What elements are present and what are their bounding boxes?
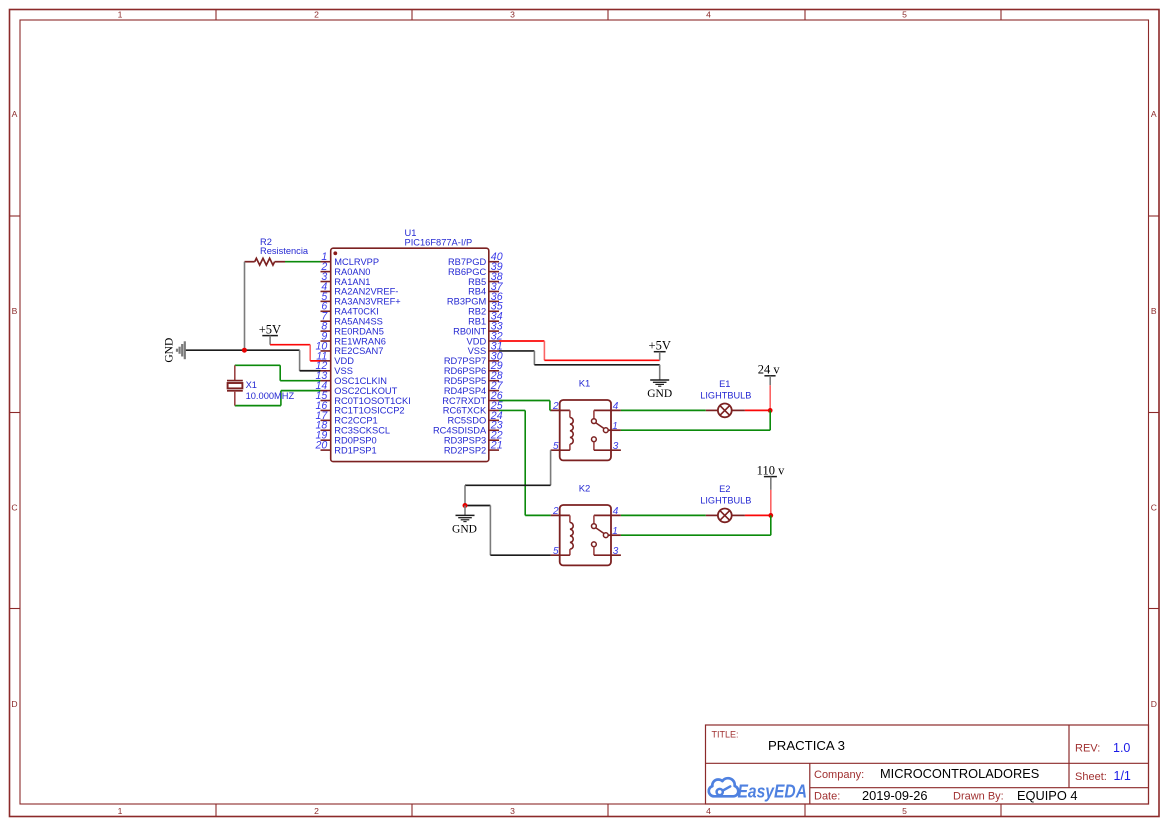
U1 pin 33 RB0INT: [453, 321, 503, 337]
U1 pin 10 RE2CSAN7: [316, 340, 384, 356]
svg-text:RB1: RB1: [468, 316, 486, 326]
svg-text:RB4: RB4: [468, 287, 486, 297]
svg-text:Company:: Company:: [814, 769, 864, 781]
svg-text:3: 3: [613, 441, 619, 452]
U1 pin 29 RD6PSP6: [444, 360, 503, 376]
svg-text:TITLE:: TITLE:: [712, 730, 739, 740]
svg-text:RC3SCKSCL: RC3SCKSCL: [334, 426, 390, 436]
lamp E1 LIGHTBULB: [700, 379, 751, 417]
U1 pin 16 RC1T1OSICCP2: [316, 400, 405, 416]
svg-text:RB6PGC: RB6PGC: [448, 267, 487, 277]
svg-text:Resistencia: Resistencia: [260, 246, 309, 256]
svg-text:1.0: 1.0: [1113, 741, 1130, 755]
wire K1 pin4 to E1 (green): [621, 409, 706, 411]
ground symbol left GND: [164, 338, 185, 363]
wire OSC2 pin14 to X1 (green): [235, 391, 321, 406]
U1 pin 18 RC3SCKSCL: [316, 420, 391, 436]
svg-text:EasyEDA: EasyEDA: [738, 780, 808, 801]
relay K1 coil: [570, 410, 573, 450]
svg-text:C: C: [11, 503, 17, 513]
svg-text:RD7PSP7: RD7PSP7: [444, 356, 486, 366]
svg-text:5: 5: [553, 441, 559, 452]
svg-text:D: D: [11, 699, 17, 709]
relay K2 pin 1 and contact: [603, 526, 621, 538]
svg-text:RC0T1OSOT1CKI: RC0T1OSOT1CKI: [334, 396, 410, 406]
U1 pin 34 RB1: [468, 311, 503, 327]
svg-text:3: 3: [510, 806, 515, 816]
svg-text:2: 2: [552, 401, 559, 412]
U1 pin 38 RB5: [468, 271, 503, 287]
relay K2 body: [560, 483, 611, 565]
svg-text:RD4PSP4: RD4PSP4: [444, 386, 486, 396]
svg-text:20: 20: [315, 440, 328, 452]
svg-text:4: 4: [613, 506, 619, 517]
relay K1 body: [560, 378, 611, 460]
svg-text:RA4T0CKI: RA4T0CKI: [334, 307, 378, 317]
U1 pin 13 OSC1CLKIN: [316, 370, 388, 386]
svg-text:MCLRVPP: MCLRVPP: [334, 257, 379, 267]
svg-text:RC6TXCK: RC6TXCK: [443, 406, 487, 416]
svg-text:X1: X1: [246, 380, 257, 390]
svg-text:EQUIPO 4: EQUIPO 4: [1017, 788, 1077, 803]
U1 pin 3 RA1AN1: [321, 271, 371, 287]
wire R2 left down to GND net (gray vertical): [244, 262, 246, 351]
junction node GND/R2: [242, 348, 247, 353]
lamp E2 LIGHTBULB: [700, 484, 751, 522]
wire VDD pin32 to +5V (red): [499, 341, 660, 360]
U1 pin 7 RA5AN4SS: [321, 311, 383, 327]
svg-text:RE2CSAN7: RE2CSAN7: [334, 346, 383, 356]
net flag 110 v: [757, 463, 785, 515]
U1 pin 4 RA2AN2VREF-: [321, 281, 399, 297]
ground symbol mid GND: [452, 506, 477, 536]
svg-text:3: 3: [613, 546, 619, 557]
EasyEDA logo: [709, 778, 807, 801]
junction node 24v/E1: [768, 408, 773, 413]
U1 pin 5 RA3AN3VREF+: [321, 291, 401, 307]
svg-text:RB7PGD: RB7PGD: [448, 257, 487, 267]
svg-text:5: 5: [902, 10, 907, 20]
svg-text:4: 4: [706, 806, 711, 816]
wire E2 to 110v junction (red): [745, 514, 771, 516]
svg-text:RB5: RB5: [468, 277, 486, 287]
U1 pin 26 RC7RXDT: [442, 390, 502, 406]
svg-text:RE0RDAN5: RE0RDAN5: [334, 326, 384, 336]
svg-text:RD5PSP5: RD5PSP5: [444, 376, 486, 386]
svg-text:VSS: VSS: [468, 346, 487, 356]
relay K1 pin 5: [551, 441, 570, 452]
svg-text:B: B: [12, 306, 18, 316]
svg-text:RD0PSP0: RD0PSP0: [334, 435, 376, 445]
svg-text:Date:: Date:: [814, 791, 840, 803]
relay K2 switch arm: [596, 528, 604, 534]
svg-text:A: A: [1151, 109, 1157, 119]
svg-text:LIGHTBULB: LIGHTBULB: [700, 391, 751, 401]
relay K1 pin 4 and contact: [592, 401, 621, 423]
relay K1 switch arm: [596, 423, 604, 429]
wire K1 pin5 to GND (black): [465, 450, 551, 505]
svg-text:1: 1: [612, 421, 618, 432]
svg-text:RA3AN3VREF+: RA3AN3VREF+: [334, 297, 400, 307]
svg-text:2: 2: [314, 10, 319, 20]
U1 pin 23 RC4SDISDA: [433, 420, 503, 436]
svg-text:RA5AN4SS: RA5AN4SS: [334, 316, 383, 326]
relay K2 pin 3 and contact: [592, 542, 621, 557]
relay K2 pin 4 and contact: [592, 506, 621, 528]
wire VSS pin31 to GND (black): [499, 351, 660, 380]
wire RC6 pin25 to K2 pin2 (green): [499, 410, 551, 515]
svg-text:+5V: +5V: [259, 323, 281, 337]
U1 pin 24 RC5SDO: [447, 410, 502, 426]
U1 pin 11 VDD: [316, 350, 354, 366]
U1 pin 9 RE1WRAN6: [321, 330, 386, 346]
wire R2 to U1 pin1 (green): [285, 261, 321, 263]
svg-text:RD2PSP2: RD2PSP2: [444, 445, 486, 455]
svg-text:3: 3: [510, 10, 515, 20]
svg-text:10.000MHZ: 10.000MHZ: [246, 391, 295, 401]
power symbol +5V (right): [649, 338, 671, 360]
title block: [706, 725, 1149, 804]
svg-text:RE1WRAN6: RE1WRAN6: [334, 336, 386, 346]
U1 pin 19 RD0PSP0: [316, 430, 377, 446]
U1 pin 8 RE0RDAN5: [321, 321, 384, 337]
svg-text:110 v: 110 v: [757, 463, 785, 477]
junction node 110v/E2: [768, 513, 773, 518]
svg-text:RB2: RB2: [468, 307, 486, 317]
svg-text:RB3PGM: RB3PGM: [447, 297, 486, 307]
U1 pin 27 RD4PSP4: [444, 380, 504, 396]
U1 pin 39 RB6PGC: [448, 261, 503, 277]
svg-text:PIC16F877A-I/P: PIC16F877A-I/P: [405, 238, 473, 248]
U1 pin 37 RB4: [468, 281, 504, 297]
svg-text:1: 1: [118, 10, 123, 20]
svg-text:OSC2CLKOUT: OSC2CLKOUT: [334, 386, 397, 396]
svg-text:1: 1: [612, 526, 618, 537]
svg-text:A: A: [12, 109, 18, 119]
svg-text:GND: GND: [452, 523, 477, 535]
U1 pin 12 VSS: [316, 360, 353, 376]
IC U1 PIC16F877A-I/P microcontroller body: [331, 228, 489, 461]
power symbol +5V (left): [259, 323, 281, 345]
U1 pin 22 RD3PSP3: [444, 430, 503, 446]
wire K1 pin1 to 24v junction (green): [621, 410, 770, 430]
U1 pin 35 RB2: [468, 301, 503, 317]
U1 pin 25 RC6TXCK: [443, 400, 503, 416]
crystal X1 10.000MHZ: [227, 365, 294, 405]
svg-text:+5V: +5V: [649, 338, 671, 352]
svg-text:RC5SDO: RC5SDO: [447, 416, 486, 426]
svg-text:K2: K2: [579, 483, 591, 494]
svg-text:4: 4: [706, 10, 711, 20]
svg-text:RC2CCP1: RC2CCP1: [334, 416, 377, 426]
svg-text:VSS: VSS: [334, 366, 353, 376]
svg-text:VDD: VDD: [334, 356, 354, 366]
ground symbol right GND: [647, 380, 672, 400]
svg-text:E1: E1: [719, 379, 730, 389]
relay K1 pin 3 and contact: [592, 437, 621, 452]
svg-text:5: 5: [902, 806, 907, 816]
svg-text:RA0AN0: RA0AN0: [334, 267, 370, 277]
svg-text:RC1T1OSICCP2: RC1T1OSICCP2: [334, 406, 404, 416]
wire GND junction to K2 pin5 (black): [465, 506, 551, 556]
svg-text:RC4SDISDA: RC4SDISDA: [433, 426, 487, 436]
U1 pin 17 RC2CCP1: [316, 410, 378, 426]
svg-text:LIGHTBULB: LIGHTBULB: [700, 496, 751, 506]
wire GND horizontal to VSS pin12: [186, 349, 300, 351]
net flag 24 v: [758, 363, 781, 411]
U1 pin 28 RD5PSP5: [444, 370, 503, 386]
U1 pin 21 RD2PSP2: [444, 440, 503, 456]
svg-text:1: 1: [118, 806, 123, 816]
U1 pin 14 OSC2CLKOUT: [316, 380, 398, 396]
svg-text:RC7RXDT: RC7RXDT: [442, 396, 486, 406]
svg-text:RD1PSP1: RD1PSP1: [334, 445, 376, 455]
wire OSC1 pin13 to X1 (green): [235, 365, 321, 380]
relay K2 pin 2: [551, 506, 570, 517]
svg-text:OSC1CLKIN: OSC1CLKIN: [334, 376, 387, 386]
relay K1 pin 2: [551, 401, 570, 412]
junction node mid GND: [463, 503, 468, 508]
svg-text:RB0INT: RB0INT: [453, 326, 486, 336]
svg-text:2: 2: [314, 806, 319, 816]
wire K2 pin4 to E2 (green): [621, 514, 706, 516]
U1 pin 1 MCLRVPP: [321, 251, 380, 267]
U1 pin 30 RD7PSP7: [444, 350, 503, 366]
svg-text:E2: E2: [719, 484, 730, 494]
svg-text:C: C: [1151, 503, 1157, 513]
svg-text:VDD: VDD: [467, 336, 487, 346]
svg-text:GND: GND: [164, 338, 176, 363]
relay K2 pin 5: [551, 546, 570, 557]
svg-text:RD3PSP3: RD3PSP3: [444, 435, 486, 445]
U1 pin 6 RA4T0CKI: [321, 301, 379, 317]
svg-text:24 v: 24 v: [758, 363, 781, 377]
relay K1 pin 1 and contact: [603, 421, 621, 433]
resistor R2 Resistencia: [245, 237, 309, 265]
svg-text:21: 21: [490, 440, 503, 452]
svg-text:PRACTICA 3: PRACTICA 3: [768, 738, 845, 753]
svg-text:Drawn By:: Drawn By:: [953, 791, 1004, 803]
wire RC7 pin26 to K1 pin2 (green): [499, 401, 551, 411]
wire K2 pin1 to 110v junction (green): [621, 515, 771, 535]
svg-text:1/1: 1/1: [1114, 769, 1131, 783]
svg-text:RD6PSP6: RD6PSP6: [444, 366, 486, 376]
svg-text:K1: K1: [579, 378, 591, 389]
svg-text:D: D: [1151, 699, 1157, 709]
U1 pin 31 VSS: [468, 340, 503, 356]
svg-text:RA1AN1: RA1AN1: [334, 277, 370, 287]
U1 pin 2 RA0AN0: [320, 261, 370, 277]
U1 pin 32 VDD: [467, 330, 503, 346]
svg-text:RA2AN2VREF-: RA2AN2VREF-: [334, 287, 398, 297]
U1 pin 36 RB3PGM: [447, 291, 503, 307]
U1 pin 40 RB7PGD: [448, 251, 503, 267]
wire +5V to VDD pin11 (red): [270, 345, 320, 361]
svg-text:2019-09-26: 2019-09-26: [862, 788, 927, 803]
svg-text:B: B: [1151, 306, 1157, 316]
svg-text:4: 4: [613, 401, 619, 412]
svg-text:Sheet:: Sheet:: [1075, 771, 1107, 783]
wire E1 to 24v junction (red): [745, 409, 770, 411]
relay K2 coil: [570, 515, 573, 555]
svg-text:REV:: REV:: [1075, 743, 1100, 755]
U1 pin 15 RC0T1OSOT1CKI: [316, 390, 411, 406]
svg-text:5: 5: [553, 546, 559, 557]
svg-text:GND: GND: [647, 388, 672, 400]
svg-text:2: 2: [552, 506, 559, 517]
svg-text:MICROCONTROLADORES: MICROCONTROLADORES: [880, 766, 1039, 781]
U1 pin 20 RD1PSP1: [315, 440, 377, 456]
